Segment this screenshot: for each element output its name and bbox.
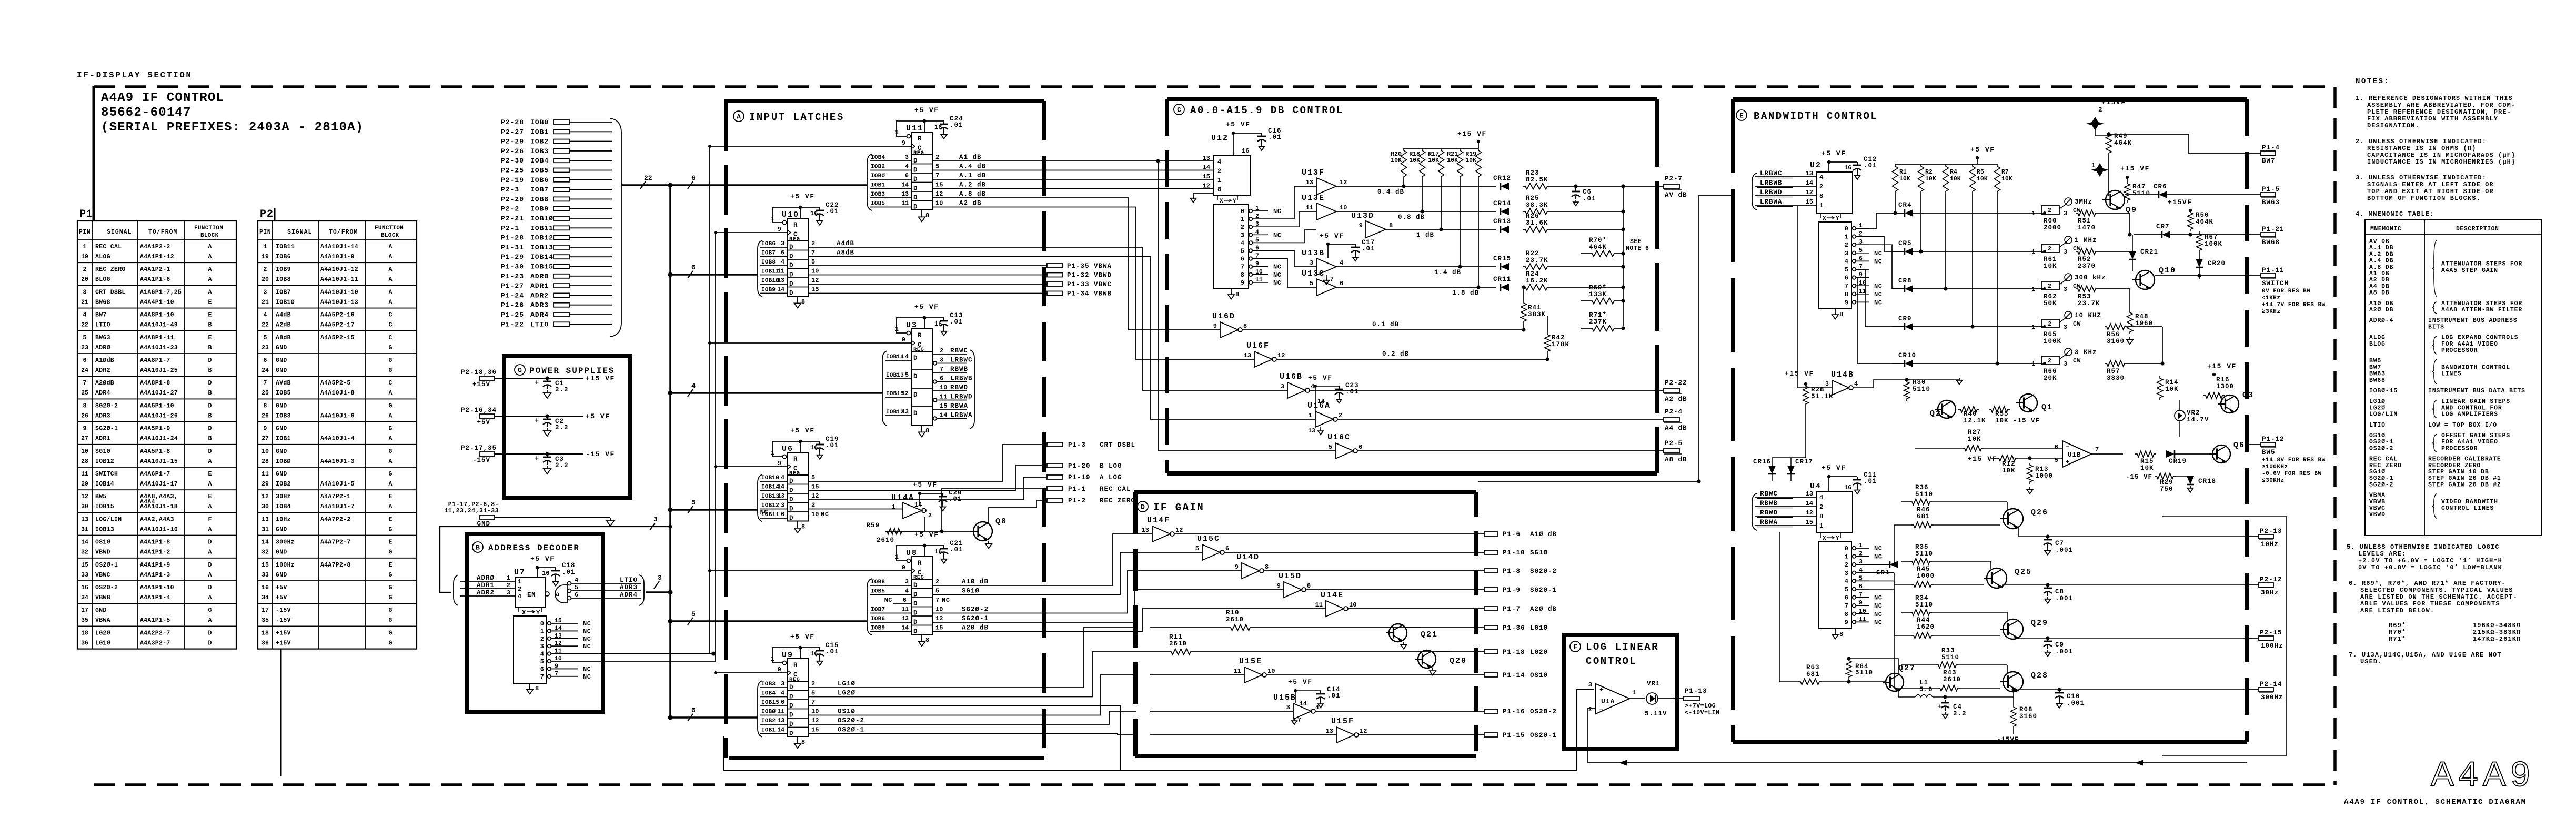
- svg-text:P1-27: P1-27: [501, 282, 524, 290]
- svg-text:IOB5: IOB5: [276, 390, 291, 397]
- bank drop wires: [1895, 194, 1896, 213]
- svg-text:5: 5: [2055, 457, 2058, 464]
- svg-text:9: 9: [83, 426, 87, 432]
- svg-text:464K: 464K: [2114, 139, 2132, 147]
- svg-text:383K: 383K: [1528, 311, 1546, 318]
- svg-text:6: 6: [1859, 583, 1863, 590]
- clock wire to latch: [710, 570, 911, 571]
- svg-text:10: 10: [940, 384, 947, 391]
- svg-text:SG2Ø-1: SG2Ø-1: [962, 615, 989, 622]
- svg-text:R56: R56: [2107, 331, 2120, 338]
- svg-text:3160: 3160: [2107, 338, 2125, 345]
- svg-text:2: 2: [1845, 561, 1848, 569]
- svg-text:LRBWC: LRBWC: [950, 357, 973, 364]
- svg-text:U15F: U15F: [1331, 717, 1354, 726]
- svg-text:NOTE 6: NOTE 6: [1626, 245, 1649, 252]
- svg-text:NC: NC: [1273, 271, 1281, 279]
- svg-text:14: 14: [1203, 164, 1210, 171]
- latch U9 input IOB15: [760, 705, 787, 706]
- svg-text:A2 DB: A2 DB: [2369, 277, 2390, 284]
- resistor R48 1960: [2129, 289, 2130, 310]
- svg-text:AV DB: AV DB: [2369, 238, 2390, 245]
- svg-text:A: A: [208, 594, 212, 601]
- output tab P1-36 LG1Ø: [1484, 625, 1498, 630]
- svg-text:Y: Y: [1836, 216, 1839, 222]
- svg-text:+5 VF: +5 VF: [1320, 232, 1344, 240]
- svg-text:11: 11: [1306, 204, 1313, 211]
- svg-text:ADR1: ADR1: [95, 436, 110, 442]
- svg-text:+5 VF: +5 VF: [1822, 464, 1846, 472]
- svg-text:24: 24: [261, 367, 269, 374]
- svg-text:-15V: -15V: [276, 607, 291, 614]
- svg-text:B LOG: B LOG: [1100, 462, 1122, 470]
- svg-text:OS2Ø-1: OS2Ø-1: [1530, 732, 1557, 739]
- svg-text:A2Ø DB: A2Ø DB: [2369, 307, 2393, 314]
- svg-text:6: 6: [1340, 280, 1343, 287]
- svg-text:P1-8: P1-8: [1503, 568, 1521, 575]
- svg-text:+15 VF: +15 VF: [2207, 362, 2237, 370]
- ground: [544, 428, 551, 436]
- latch U8 input IOB5: [870, 594, 911, 595]
- svg-text:RBWB: RBWB: [950, 366, 968, 373]
- svg-text:7. U13A,U14C,U15A, AND U16E AR: 7. U13A,U14C,U15A, AND U16E ARE NOT: [2349, 651, 2502, 659]
- svg-text:A: A: [389, 244, 393, 250]
- latch U8 ground pin 8: [921, 634, 922, 640]
- svg-text:A: A: [208, 617, 212, 624]
- svg-text:NC: NC: [1273, 264, 1281, 271]
- wire BW7 from star node: [2109, 134, 2247, 153]
- svg-text:6: 6: [781, 250, 784, 257]
- svg-text:10Hz: 10Hz: [2261, 541, 2279, 548]
- svg-text:IF-DISPLAY SECTION: IF-DISPLAY SECTION: [77, 70, 193, 80]
- U2 input LRBWA: [1755, 205, 1816, 206]
- svg-text:14: 14: [1806, 179, 1813, 187]
- svg-text:A4A10J1-4: A4A10J1-4: [320, 436, 355, 442]
- svg-text:.01: .01: [1583, 195, 1596, 203]
- svg-text:F: F: [208, 516, 212, 523]
- svg-text:TOP AND EXIT AT RIGHT SIDE OR: TOP AND EXIT AT RIGHT SIDE OR: [2367, 188, 2494, 195]
- U13B pin7 ground: [1326, 275, 1327, 281]
- svg-text:3: 3: [2064, 324, 2067, 331]
- svg-text:A: A: [737, 113, 741, 121]
- svg-text:U15C: U15C: [1197, 534, 1220, 543]
- svg-text:18: 18: [261, 630, 269, 637]
- svg-text:P1-24: P1-24: [501, 291, 524, 299]
- svg-text:IOB14: IOB14: [761, 484, 779, 491]
- svg-text:P2-15: P2-15: [2260, 629, 2282, 637]
- svg-text:133K: 133K: [1589, 291, 1607, 298]
- wire U15E output: [1266, 674, 1484, 675]
- svg-text:9: 9: [1845, 619, 1848, 626]
- svg-text:A4A8P1-10: A4A8P1-10: [140, 312, 174, 319]
- svg-text:OS2Ø-2: OS2Ø-2: [1530, 708, 1557, 715]
- svg-text:ADDRESS DECODER: ADDRESS DECODER: [488, 543, 580, 553]
- svg-text:L1: L1: [1919, 679, 1928, 686]
- output tab P2-4 A4 dB: [1664, 417, 1679, 421]
- svg-text:R: R: [918, 560, 922, 567]
- svg-text:P1-32 VBWD: P1-32 VBWD: [1067, 272, 1112, 279]
- svg-text:3: 3: [1845, 570, 1848, 577]
- svg-text:A4A10J1-8: A4A10J1-8: [320, 390, 355, 397]
- svg-text:CR15: CR15: [1493, 255, 1511, 262]
- svg-text:8: 8: [1839, 311, 1843, 318]
- svg-text:2: 2: [264, 266, 267, 273]
- svg-text:IOB9: IOB9: [871, 625, 885, 632]
- svg-text:CW: CW: [2073, 358, 2081, 365]
- svg-text:IOB14: IOB14: [886, 354, 904, 360]
- svg-text:BLOG: BLOG: [2369, 341, 2386, 348]
- svg-text:5: 5: [1859, 575, 1863, 582]
- latch U11 input IOB2: [870, 170, 911, 171]
- svg-text:(SERIAL PREFIXES: 2403A - 2810: (SERIAL PREFIXES: 2403A - 2810A): [101, 120, 364, 135]
- svg-text:FOR A4A1 VIDEO: FOR A4A1 VIDEO: [2441, 439, 2498, 446]
- svg-text:Q9: Q9: [2126, 206, 2137, 215]
- wire U14A output: [924, 517, 925, 531]
- svg-text:10: 10: [935, 200, 943, 207]
- transistor Q8: [973, 522, 992, 541]
- wire Q28 base: [1960, 688, 2000, 689]
- svg-text:ABLE VALUES FOR THESE COMPONEN: ABLE VALUES FOR THESE COMPONENTS: [2360, 600, 2500, 608]
- svg-text:1.8 dB: 1.8 dB: [1452, 289, 1479, 297]
- svg-text:CR21: CR21: [2140, 248, 2158, 256]
- address bus wire to decoder: [668, 524, 672, 528]
- svg-text:G: G: [389, 630, 393, 637]
- svg-text:4: 4: [1845, 578, 1848, 585]
- svg-text:A: A: [389, 503, 393, 510]
- svg-text:LEVELS ARE:: LEVELS ARE:: [2358, 550, 2406, 558]
- op-amp U1A: [1596, 684, 1629, 714]
- svg-text:+15VF: +15VF: [2101, 98, 2126, 106]
- svg-text:LRBWD: LRBWD: [1760, 189, 1783, 196]
- svg-text:SG1Ø: SG1Ø: [2369, 469, 2386, 476]
- svg-text:VBWC: VBWC: [95, 572, 110, 579]
- svg-text:OS1Ø: OS1Ø: [95, 539, 110, 546]
- svg-text:NC: NC: [583, 620, 591, 628]
- svg-text:1: 1: [2031, 324, 2035, 331]
- svg-text:28: 28: [81, 458, 88, 465]
- svg-text:E: E: [208, 299, 212, 306]
- svg-text:CAPACITANCE IS IN MICROFARADS: CAPACITANCE IS IN MICROFARADS (μF}: [2367, 152, 2515, 159]
- svg-text:14: 14: [777, 727, 784, 734]
- svg-text:P1-28: P1-28: [501, 234, 524, 242]
- svg-text:A: A: [389, 436, 393, 442]
- svg-text:BW7: BW7: [2262, 157, 2276, 165]
- svg-text:19: 19: [81, 254, 88, 260]
- svg-text:D: D: [208, 539, 212, 546]
- svg-text:REC ZERO: REC ZERO: [2369, 462, 2402, 469]
- svg-text:35: 35: [261, 617, 269, 624]
- svg-text:P1-22: P1-22: [501, 320, 524, 328]
- svg-text:9: 9: [1859, 272, 1863, 279]
- U4 input RBWD: [1755, 516, 1816, 517]
- svg-text:15: 15: [811, 483, 819, 491]
- svg-text:CR12: CR12: [1493, 175, 1511, 182]
- svg-text:A4A9: A4A9: [2431, 754, 2534, 793]
- svg-text:X: X: [1823, 536, 1826, 542]
- svg-text:IOB1: IOB1: [530, 128, 549, 136]
- svg-text:8: 8: [1235, 291, 1239, 298]
- svg-text:14.7V: 14.7V: [2187, 416, 2209, 423]
- capacitor C11 .01: [1857, 477, 1858, 480]
- svg-text:C9: C9: [2055, 641, 2064, 649]
- svg-text:P2-14: P2-14: [2260, 681, 2282, 688]
- svg-text:10K: 10K: [1995, 417, 2009, 425]
- svg-text:G: G: [389, 345, 393, 351]
- wire LRBWA to U14B: [1797, 206, 1798, 388]
- svg-text:30: 30: [261, 503, 269, 510]
- svg-text:A4A2,A4A3: A4A2,A4A3: [140, 516, 174, 523]
- svg-text:B: B: [208, 322, 212, 329]
- svg-text:R28: R28: [1811, 386, 1825, 393]
- svg-text:R33: R33: [1941, 647, 1955, 654]
- svg-text:4: 4: [1819, 494, 1823, 501]
- svg-text:2610: 2610: [1169, 640, 1187, 648]
- svg-text:C: C: [1177, 106, 1181, 114]
- svg-text:P2-28: P2-28: [501, 118, 524, 126]
- svg-text:10: 10: [1267, 668, 1275, 675]
- svg-text:A4A10J1-23: A4A10J1-23: [140, 345, 178, 351]
- svg-text:A4A8P1-7: A4A8P1-7: [140, 357, 170, 364]
- svg-text:VBWB: VBWB: [95, 594, 110, 601]
- svg-text:1: 1: [1241, 216, 1244, 223]
- svg-text:100K: 100K: [2205, 240, 2222, 248]
- svg-text:P1-26: P1-26: [501, 301, 524, 309]
- svg-text:IOBØ: IOBØ: [530, 118, 549, 126]
- svg-text:R10: R10: [1226, 609, 1240, 617]
- svg-text:CR13: CR13: [1493, 218, 1511, 225]
- svg-text:A2dB: A2dB: [276, 322, 291, 329]
- svg-text:+15V: +15V: [472, 381, 490, 388]
- svg-text:+5 VF: +5 VF: [913, 481, 938, 489]
- collection bus: [1623, 186, 1624, 326]
- svg-text:3: 3: [507, 589, 510, 597]
- svg-text:3: 3: [781, 240, 784, 247]
- svg-text:Q29: Q29: [2031, 619, 2048, 628]
- svg-text:U13E: U13E: [1302, 194, 1325, 203]
- svg-text:2: 2: [2048, 246, 2051, 253]
- svg-text:1000: 1000: [2035, 472, 2053, 480]
- svg-text:C: C: [389, 335, 393, 341]
- svg-text:Q3: Q3: [2242, 391, 2254, 400]
- svg-text:10K: 10K: [1925, 176, 1936, 183]
- svg-text:A4A4: A4A4: [140, 499, 155, 506]
- svg-text:16: 16: [810, 444, 818, 451]
- svg-text:A: A: [208, 266, 212, 273]
- mnemonic table: [2365, 220, 2541, 536]
- svg-text:A4A10J1-9: A4A10J1-9: [320, 254, 355, 260]
- wire U9 pin7 down to log linear: [809, 706, 1577, 771]
- svg-text:Q21: Q21: [1421, 630, 1438, 639]
- svg-text:NC: NC: [942, 597, 950, 604]
- svg-text:9: 9: [778, 666, 781, 673]
- svg-text:RBWB: RBWB: [1760, 500, 1778, 507]
- svg-text:D: D: [208, 426, 212, 432]
- svg-text:A: A: [389, 458, 393, 465]
- svg-text:REC ZERO: REC ZERO: [1100, 497, 1135, 504]
- svg-text:+5V: +5V: [276, 594, 287, 601]
- svg-text:0.4 dB: 0.4 dB: [1377, 188, 1404, 196]
- svg-text:≥100KHz: ≥100KHz: [2262, 464, 2288, 470]
- svg-text:NC: NC: [1874, 291, 1882, 298]
- svg-text:2: 2: [507, 582, 510, 589]
- svg-text:IOB6: IOB6: [761, 241, 776, 247]
- svg-text:4: 4: [905, 588, 909, 595]
- svg-text:2: 2: [1339, 412, 1342, 419]
- svg-text:U16C: U16C: [1327, 433, 1351, 442]
- wire Q29 base: [1934, 635, 2000, 636]
- svg-text:8: 8: [1389, 222, 1393, 229]
- capacitor C14 .01: [1320, 691, 1321, 694]
- svg-text:U15E: U15E: [1239, 657, 1262, 666]
- resistor R7 10K: [1995, 164, 2000, 194]
- svg-text:14: 14: [777, 287, 784, 294]
- svg-text:A1 dB: A1 dB: [959, 154, 982, 161]
- svg-text:12: 12: [1806, 189, 1813, 196]
- svg-text:R7: R7: [2001, 169, 2009, 176]
- svg-text:FOR A4A1 VIDEO: FOR A4A1 VIDEO: [2441, 341, 2498, 348]
- svg-text:IOB3: IOB3: [871, 191, 885, 198]
- svg-text:ADR3: ADR3: [95, 412, 110, 419]
- svg-text:11: 11: [901, 607, 909, 613]
- svg-text:8: 8: [1217, 186, 1221, 194]
- svg-text:1: 1: [895, 326, 899, 333]
- latch U6 input bracket: [758, 474, 762, 522]
- svg-text:REG: REG: [789, 236, 800, 243]
- decoder U4 X to Y block: [1820, 533, 1840, 538]
- svg-text:13: 13: [777, 718, 784, 724]
- svg-text:+5 VF: +5 VF: [1822, 149, 1846, 157]
- latch U3 ground pin 8: [921, 425, 922, 430]
- svg-text:22: 22: [81, 322, 88, 329]
- svg-text:2: 2: [2098, 106, 2102, 114]
- diode CR14: [1501, 208, 1509, 215]
- latch U3 output LRBWD: [933, 398, 937, 402]
- svg-text:681: 681: [1806, 671, 1820, 678]
- svg-text:A4A10J1-26: A4A10J1-26: [140, 412, 178, 419]
- svg-text:LTIO: LTIO: [530, 320, 549, 328]
- svg-text:-15 VF: -15 VF: [2013, 417, 2040, 425]
- svg-text:C7: C7: [2055, 540, 2064, 547]
- decoder input ADRØ: [460, 581, 515, 582]
- latch U10 ground pin 8: [797, 296, 798, 301]
- svg-text:P1-36: P1-36: [1503, 624, 1525, 632]
- svg-text:3: 3: [658, 574, 662, 582]
- svg-text:6: 6: [1845, 275, 1848, 282]
- svg-text:P1-15: P1-15: [1503, 732, 1525, 739]
- svg-text:+15 VF: +15 VF: [2120, 165, 2150, 173]
- svg-text:R1: R1: [1899, 169, 1907, 176]
- svg-text:+14.8V FOR RES BW: +14.8V FOR RES BW: [2262, 457, 2326, 463]
- svg-text:A1Ø dB: A1Ø dB: [1530, 531, 1557, 538]
- svg-text:A1A6P1-7,25: A1A6P1-7,25: [140, 289, 182, 296]
- svg-text:IOB6: IOB6: [871, 616, 885, 622]
- U2 ground pin 8: [1835, 309, 1836, 315]
- svg-text:5110: 5110: [1941, 654, 1959, 661]
- resistor R49 464K: [2095, 130, 2096, 136]
- svg-text:5110: 5110: [1915, 601, 1933, 609]
- svg-text:a: a: [556, 591, 559, 598]
- svg-text:IOB4: IOB4: [276, 503, 291, 510]
- diode CR15: [1501, 263, 1509, 270]
- svg-text:P1-11: P1-11: [2262, 267, 2285, 274]
- svg-text:5: 5: [83, 335, 87, 341]
- svg-text:PLETE REFERENCE DESIGNATION, P: PLETE REFERENCE DESIGNATION, PRE-: [2367, 108, 2511, 116]
- svg-text:12: 12: [1340, 179, 1347, 186]
- svg-text:NC: NC: [1874, 553, 1882, 561]
- svg-text:R60: R60: [2044, 217, 2057, 225]
- output tab P1-15 OS2Ø-1: [1484, 733, 1498, 737]
- svg-text:12: 12: [1806, 509, 1813, 517]
- svg-text:2370: 2370: [2078, 262, 2096, 270]
- svg-text:3: 3: [2064, 286, 2067, 293]
- capacitor C3 2.2: [547, 454, 548, 457]
- svg-text:1: 1: [2031, 361, 2035, 368]
- svg-text:C6: C6: [1583, 188, 1592, 196]
- latch U3 output RBWB: [933, 372, 967, 373]
- svg-text:G: G: [389, 357, 393, 364]
- svg-text:ADR3: ADR3: [530, 301, 549, 309]
- svg-text:P2-12: P2-12: [2260, 576, 2282, 583]
- svg-text:GND: GND: [477, 520, 490, 528]
- gate input ADR3: [568, 589, 571, 593]
- svg-text:1: 1: [1845, 553, 1848, 561]
- svg-text:A4A10J1-24: A4A10J1-24: [140, 436, 178, 442]
- svg-text:13: 13: [1244, 352, 1251, 359]
- svg-text:R65: R65: [2044, 331, 2057, 338]
- svg-text:U13B: U13B: [1302, 249, 1325, 258]
- svg-text:P1-6: P1-6: [1503, 531, 1521, 538]
- resistor R67 100K: [2197, 231, 2202, 253]
- svg-text:D: D: [789, 730, 793, 738]
- svg-text:P1-13: P1-13: [1685, 688, 1707, 695]
- svg-text:CR9: CR9: [1898, 315, 1912, 322]
- svg-text:+15V: +15V: [276, 640, 291, 647]
- svg-text:7: 7: [555, 671, 558, 678]
- svg-text:G: G: [389, 594, 393, 601]
- svg-text:Q8: Q8: [995, 517, 1007, 526]
- svg-text:A4A10J1-49: A4A10J1-49: [140, 322, 178, 329]
- svg-text:8: 8: [535, 685, 539, 692]
- function block A INPUT LATCHES: [724, 99, 1044, 103]
- svg-text:CR8: CR8: [1898, 277, 1912, 285]
- ground: [1193, 194, 1214, 199]
- svg-text:P2: P2: [260, 208, 274, 220]
- decoder U7 X to Y block: [518, 607, 542, 612]
- svg-text:6: 6: [691, 174, 696, 182]
- svg-text:G: G: [389, 448, 393, 455]
- svg-text:U14B: U14B: [1831, 370, 1854, 379]
- svg-text:1 MHz: 1 MHz: [2075, 237, 2097, 244]
- wire U14E output: [1348, 608, 1484, 609]
- svg-text:12: 12: [81, 493, 88, 500]
- ground pin 8: [529, 683, 530, 689]
- svg-text:G: G: [389, 584, 393, 591]
- output tab P1-6 A1Ø dB: [1484, 532, 1498, 536]
- svg-text:P1-5: P1-5: [2262, 186, 2280, 193]
- svg-text:OS2Ø-2: OS2Ø-2: [95, 584, 118, 591]
- svg-text:IOB3: IOB3: [530, 147, 549, 155]
- svg-text:A: A: [389, 276, 393, 283]
- svg-text:R40: R40: [1964, 410, 1977, 418]
- svg-text:2: 2: [928, 512, 932, 519]
- svg-text:VBWD: VBWD: [2369, 511, 2386, 518]
- latch U6 input IOB13: [760, 499, 787, 500]
- svg-text:10K: 10K: [2044, 262, 2057, 270]
- svg-text:8: 8: [264, 402, 267, 409]
- svg-text:+5V: +5V: [276, 584, 287, 591]
- transistor Q6: [2212, 445, 2230, 463]
- svg-text:1: 1: [771, 215, 774, 223]
